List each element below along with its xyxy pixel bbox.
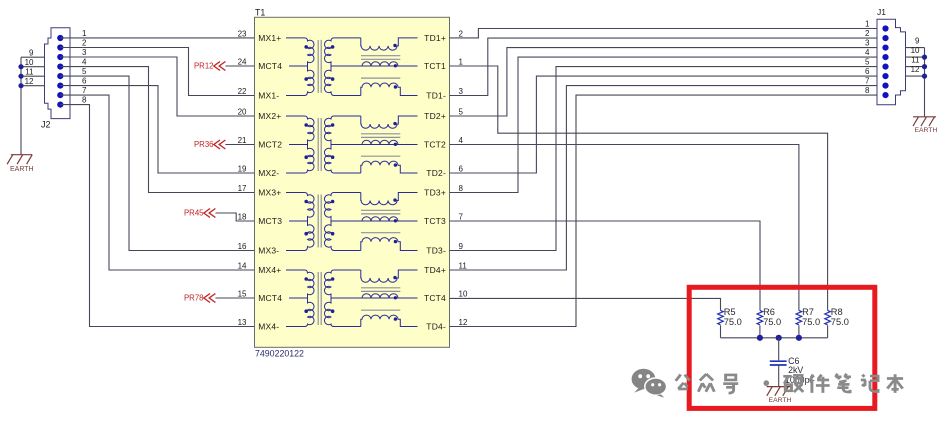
svg-text:75.0: 75.0	[831, 317, 849, 327]
resistor R8	[825, 310, 831, 324]
resistor R7	[796, 310, 802, 324]
polarity dot	[304, 123, 308, 127]
svg-text:MCT2: MCT2	[258, 139, 282, 149]
transformer core ch1	[317, 40, 319, 93]
transformer winding secondary ch1	[324, 38, 360, 96]
choke core ch3 lower	[361, 232, 400, 234]
J2 pin 5 dot	[57, 73, 63, 79]
resistor R5	[718, 310, 724, 324]
svg-text:R8: R8	[831, 307, 843, 317]
wire TD2+ to J1.3	[450, 48, 886, 116]
polarity dot	[331, 123, 335, 127]
svg-text:T1: T1	[255, 7, 265, 17]
svg-text:10: 10	[25, 58, 34, 67]
polarity dot	[304, 309, 308, 313]
J2 pin 10 wire	[21, 66, 45, 68]
svg-text:MX1+: MX1+	[258, 33, 281, 43]
polarity dot	[331, 277, 335, 281]
wire TCT2 to R7	[450, 145, 799, 311]
svg-text:2: 2	[82, 38, 87, 47]
svg-text:MX1-: MX1-	[258, 90, 279, 100]
J1 pin 3 dot	[882, 45, 888, 51]
wire TD3+ to J1.4	[450, 57, 886, 192]
svg-text:MX3+: MX3+	[258, 187, 281, 197]
svg-text:11: 11	[459, 262, 468, 271]
polarity dot	[304, 232, 308, 236]
polarity dot	[331, 232, 335, 236]
wire J2.6 to MX2-	[60, 86, 254, 173]
junction	[922, 55, 927, 60]
wire TD1- to J1.2	[450, 38, 886, 95]
svg-text:21: 21	[238, 136, 247, 145]
wire TCT3 to R6	[450, 221, 761, 310]
svg-text:14: 14	[238, 262, 247, 271]
svg-text:PR36: PR36	[194, 140, 214, 149]
svg-text:2: 2	[865, 29, 870, 38]
wire PR45 to pin 18	[215, 213, 254, 221]
choke winding TD1-	[361, 83, 418, 96]
choke winding TCT4	[362, 294, 398, 298]
svg-text:10: 10	[911, 46, 920, 55]
wire J2.1 to MX1+	[60, 37, 254, 39]
watermark WeChat icon	[632, 369, 667, 398]
svg-text:16: 16	[238, 242, 247, 251]
J1 pin 11 wire	[906, 66, 925, 68]
J1 pin 10 wire	[906, 56, 925, 58]
J1 pin 5 dot	[882, 64, 888, 70]
polarity dot	[304, 155, 308, 159]
J2 pin 9 wire	[21, 56, 45, 58]
svg-text:1: 1	[865, 19, 870, 28]
transformer T1 box	[255, 17, 450, 347]
choke core ch3	[361, 209, 400, 211]
R6 lower lead	[759, 325, 761, 337]
wire TCT1 to R8	[450, 66, 828, 310]
svg-text:MX2-: MX2-	[258, 168, 279, 178]
svg-text:1: 1	[459, 58, 464, 67]
svg-text:PR12: PR12	[194, 62, 214, 71]
wire PR36 to pin 21	[225, 144, 254, 146]
svg-text:TD2-: TD2-	[426, 168, 446, 178]
wire J2.4 to MX3+	[60, 67, 254, 193]
svg-text:3: 3	[865, 38, 870, 47]
svg-text:5: 5	[459, 108, 464, 117]
highlight box (Bob Smith termination)	[689, 287, 875, 408]
svg-text:4: 4	[82, 57, 87, 66]
svg-text:MX3-: MX3-	[258, 245, 279, 255]
svg-text:MCT4: MCT4	[258, 293, 282, 303]
svg-text:12: 12	[459, 318, 468, 327]
transformer winding secondary ch2	[324, 116, 360, 173]
svg-text:10: 10	[459, 290, 468, 299]
wire resistor bus	[721, 337, 828, 339]
polarity dot	[393, 122, 396, 125]
choke winding TD3-	[361, 238, 418, 251]
J2 pin 8 dot	[57, 102, 63, 108]
svg-text:EARTH: EARTH	[10, 166, 34, 173]
primary centre-tap wire ch3	[289, 220, 308, 222]
svg-text:MCT3: MCT3	[258, 216, 282, 226]
svg-text:MX4+: MX4+	[258, 265, 281, 275]
wire PR12 to pin 24	[225, 65, 254, 67]
polarity dot	[394, 240, 397, 243]
svg-text:12: 12	[25, 77, 34, 86]
svg-text:3: 3	[459, 87, 464, 96]
wire PR78 to pin 15	[215, 297, 254, 299]
J1 pin 1 dot	[882, 25, 888, 31]
polarity dot	[393, 276, 396, 279]
choke winding TCT2	[362, 140, 398, 144]
svg-text:2: 2	[459, 29, 464, 38]
choke winding TCT3	[362, 217, 398, 221]
transformer winding primary ch1	[286, 38, 314, 96]
svg-text:TD4-: TD4-	[426, 321, 446, 331]
svg-text:75.0: 75.0	[802, 317, 820, 327]
svg-text:6: 6	[82, 76, 87, 85]
J2 shield bus wire	[20, 57, 22, 155]
svg-text:TD4+: TD4+	[424, 265, 446, 275]
wire TCT3 internal	[331, 220, 418, 222]
junction	[922, 64, 927, 69]
R5 lower lead	[720, 325, 722, 337]
wire TCT1 internal	[331, 65, 418, 67]
choke winding TD2+	[361, 116, 418, 128]
svg-text:TCT3: TCT3	[424, 216, 446, 226]
connector J2 body	[45, 28, 71, 119]
J1 pin 7 dot	[882, 83, 888, 89]
polarity dot	[394, 296, 397, 299]
svg-text:17: 17	[238, 184, 247, 193]
J1 pin 6 dot	[882, 73, 888, 79]
choke core ch1 lower	[361, 77, 400, 79]
svg-text:23: 23	[238, 29, 247, 38]
svg-text:MCT4: MCT4	[258, 61, 282, 71]
ground EARTH (C6)	[767, 386, 791, 388]
watermark text 公众号·硬件笔记本	[676, 374, 690, 389]
choke winding TD1+	[361, 38, 418, 50]
J1 pin 8 dot	[882, 92, 888, 98]
polarity dot	[394, 317, 397, 320]
junction	[796, 335, 802, 341]
polarity dot	[304, 77, 308, 81]
polarity dot	[331, 77, 335, 81]
svg-text:5: 5	[82, 67, 87, 76]
svg-text:EARTH: EARTH	[769, 397, 792, 404]
svg-text:8: 8	[82, 95, 87, 104]
junction	[776, 335, 782, 341]
R8 lower lead	[827, 325, 829, 337]
choke winding TCT1	[362, 62, 398, 66]
wire TD4+ to J1.7	[450, 86, 886, 270]
svg-text:11: 11	[25, 67, 34, 76]
choke core ch2 lower	[361, 155, 400, 157]
polarity dot	[394, 163, 397, 166]
svg-text:7: 7	[459, 213, 464, 222]
svg-text:TCT1: TCT1	[424, 61, 446, 71]
svg-text:TD3+: TD3+	[424, 187, 446, 197]
svg-text:3: 3	[82, 48, 87, 57]
polarity dot	[304, 200, 308, 204]
polarity dot	[331, 309, 335, 313]
svg-text:TCT4: TCT4	[424, 293, 446, 303]
polarity dot	[304, 45, 308, 49]
transformer core ch4	[317, 272, 319, 325]
svg-text:7490220122: 7490220122	[255, 349, 304, 359]
J2 pin 1 dot	[57, 35, 63, 41]
J2 pin 3 dot	[57, 54, 63, 60]
transformer core ch2	[317, 118, 319, 171]
capacitor C6	[778, 338, 780, 361]
choke winding TD4+	[361, 270, 418, 282]
svg-text:TD1-: TD1-	[426, 90, 446, 100]
polarity dot	[394, 85, 397, 88]
svg-text:75.0: 75.0	[763, 317, 781, 327]
junction	[757, 335, 763, 341]
svg-text:75.0: 75.0	[724, 317, 742, 327]
svg-text:J2: J2	[41, 120, 51, 130]
transformer core ch3	[317, 195, 319, 248]
wire J2.2 to MX1-	[60, 48, 254, 96]
wire TCT4 internal	[331, 297, 418, 299]
svg-text:MX2+: MX2+	[258, 111, 281, 121]
J2 pin 7 dot	[57, 92, 63, 98]
choke core ch1	[361, 55, 400, 57]
primary centre-tap wire ch1	[289, 65, 308, 67]
svg-text:2kV: 2kV	[788, 365, 803, 375]
choke winding TD4-	[361, 315, 418, 326]
J2 pin 4 dot	[57, 64, 63, 70]
svg-text:TD1+: TD1+	[424, 33, 446, 43]
junction	[18, 74, 23, 79]
svg-text:8: 8	[865, 86, 870, 95]
wire J2.7 to MX4+	[60, 95, 254, 270]
svg-text:PR45: PR45	[184, 209, 204, 218]
svg-text:J1: J1	[877, 7, 886, 17]
svg-text:TCT2: TCT2	[424, 139, 446, 149]
transformer winding primary ch3	[286, 193, 314, 251]
R7 lower lead	[798, 325, 800, 337]
svg-text:9: 9	[459, 242, 464, 251]
polarity dot	[393, 44, 396, 47]
choke core ch2	[361, 133, 400, 135]
polarity dot	[394, 64, 397, 67]
junction	[18, 64, 23, 69]
svg-text:7: 7	[82, 86, 87, 95]
transformer winding secondary ch3	[324, 193, 360, 251]
ground EARTH (J2)	[11, 154, 32, 156]
choke winding TD3+	[361, 193, 418, 205]
polarity dot	[393, 198, 396, 201]
svg-text:11: 11	[911, 55, 920, 64]
wire J2.5 to MX3-	[60, 76, 254, 250]
wire TD4- to J1.8	[450, 95, 886, 326]
transformer winding primary ch4	[286, 270, 314, 327]
J1 pin 4 dot	[882, 54, 888, 60]
connector J1 body	[877, 19, 906, 105]
wire TD1+ to J1.1	[450, 29, 886, 38]
choke winding TD2-	[361, 161, 418, 173]
polarity dot	[331, 155, 335, 159]
J1 pin 2 dot	[882, 35, 888, 41]
svg-text:4: 4	[865, 48, 870, 57]
polarity dot	[304, 277, 308, 281]
polarity dot	[331, 45, 335, 49]
polarity dot	[394, 219, 397, 222]
svg-text:18: 18	[238, 213, 247, 222]
svg-text:12: 12	[911, 65, 920, 74]
junction	[922, 74, 927, 79]
wire J2.3 to MX2+	[60, 57, 254, 116]
svg-text:9: 9	[29, 48, 34, 57]
svg-text:4: 4	[459, 136, 464, 145]
svg-text:MX4-: MX4-	[258, 321, 279, 331]
polarity dot	[331, 200, 335, 204]
junction	[18, 83, 23, 88]
ground EARTH (J1)	[913, 116, 936, 118]
svg-text:20: 20	[238, 108, 247, 117]
choke core ch4	[361, 287, 400, 289]
J1 pin 9 wire	[906, 47, 925, 49]
choke core ch4 lower	[361, 309, 400, 311]
svg-text:5: 5	[865, 57, 870, 66]
resistor R6	[757, 310, 763, 324]
svg-text:R6: R6	[763, 307, 775, 317]
transformer winding secondary ch4	[324, 270, 360, 327]
svg-text:1: 1	[82, 29, 87, 38]
primary centre-tap wire ch2	[289, 144, 308, 146]
svg-text:9: 9	[915, 36, 920, 45]
svg-text:EARTH: EARTH	[914, 127, 937, 134]
svg-text:TD2+: TD2+	[424, 111, 446, 121]
J2 pin 11 wire	[21, 75, 45, 77]
svg-text:22: 22	[238, 87, 247, 96]
wire TCT4 to R5	[450, 298, 721, 310]
J2 pin 12 wire	[21, 85, 45, 87]
J2 pin 2 dot	[57, 44, 63, 50]
svg-text:6: 6	[459, 165, 464, 174]
svg-text:13: 13	[238, 318, 247, 327]
svg-text:PR78: PR78	[184, 294, 204, 303]
svg-text:8: 8	[459, 184, 464, 193]
transformer winding primary ch2	[286, 116, 314, 173]
J1 pin 12 wire	[906, 75, 925, 77]
J1 shield bus wire	[924, 48, 926, 117]
svg-text:6: 6	[865, 67, 870, 76]
J2 pin 6 dot	[57, 83, 63, 89]
svg-text:R5: R5	[724, 307, 736, 317]
svg-text:7: 7	[865, 76, 870, 85]
svg-text:15: 15	[238, 290, 247, 299]
wire J2.8 to MX4-	[60, 105, 254, 327]
svg-text:R7: R7	[802, 307, 814, 317]
wire TCT2 internal	[331, 144, 418, 146]
svg-text:19: 19	[238, 165, 247, 174]
wire TD2- to J1.6	[450, 76, 886, 173]
polarity dot	[394, 143, 397, 146]
wire TD3- to J1.5	[450, 67, 886, 251]
svg-text:24: 24	[238, 58, 247, 67]
svg-text:TD3-: TD3-	[426, 245, 446, 255]
primary centre-tap wire ch4	[289, 297, 308, 299]
